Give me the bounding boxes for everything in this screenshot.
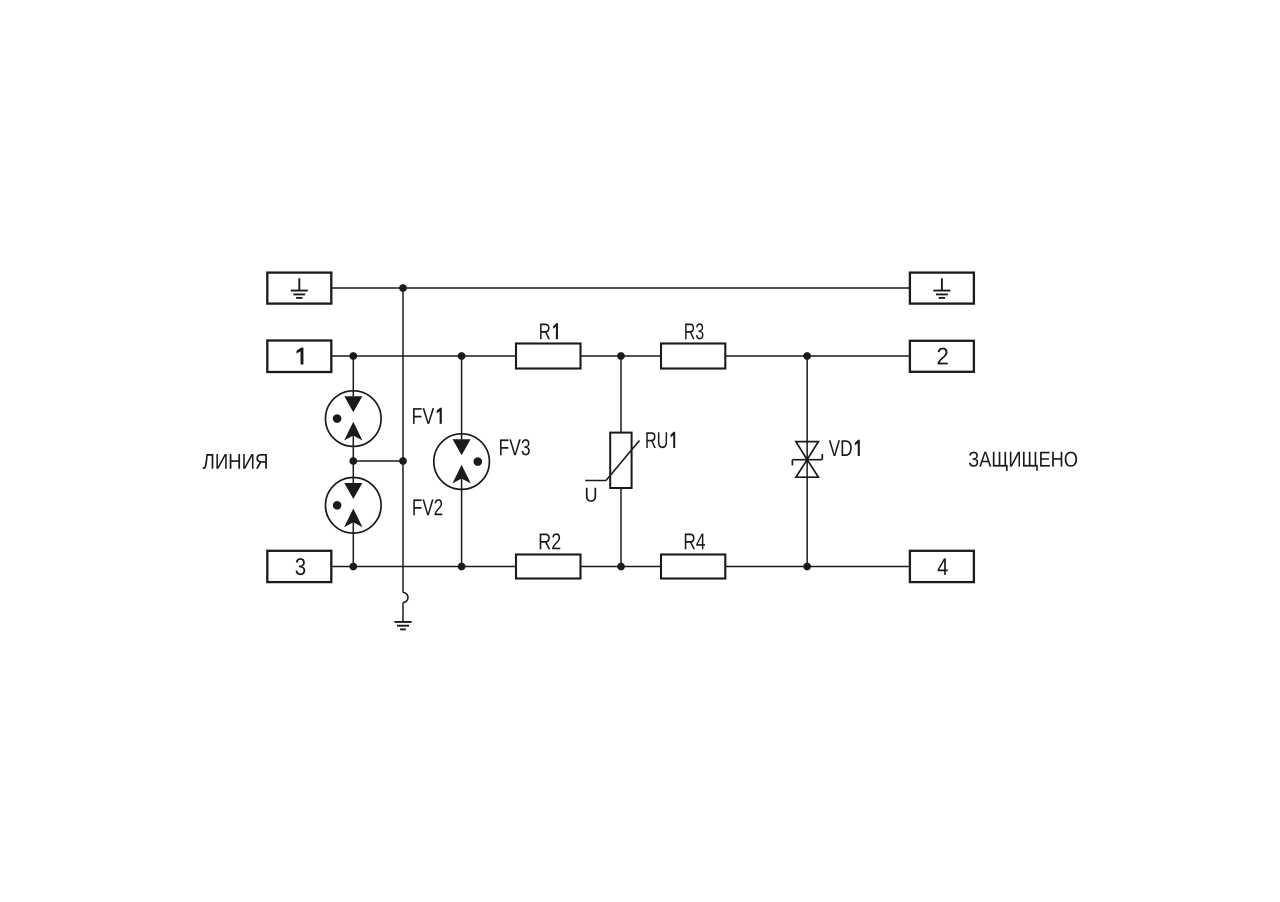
label VD1 xyxy=(829,440,860,456)
label R3 xyxy=(685,323,703,339)
label FV3 xyxy=(500,439,530,455)
node: top line / VD1 branch xyxy=(803,352,811,360)
node: midpoint link / ground conductor xyxy=(399,457,407,465)
resistor R3 xyxy=(661,344,725,369)
gas discharge tube FV3 xyxy=(434,434,490,490)
label R1 xyxy=(540,323,558,339)
label terminal 1 xyxy=(297,348,304,365)
node: bottom line / RU1 branch xyxy=(617,563,625,571)
ground symbol inside left earth terminal xyxy=(291,278,308,298)
label FV2 xyxy=(413,499,442,515)
wire: earth bus (top horizontal) xyxy=(331,287,910,289)
wire: FV1/FV2 midpoint to ground conductor xyxy=(353,460,403,462)
wire: top line to RU1 xyxy=(620,356,622,433)
wire: vertical ground conductor xyxy=(403,288,408,622)
node: bottom line / FV3 branch xyxy=(458,563,466,571)
wire: R4 to terminal 4 xyxy=(725,566,910,568)
wire: top line to FV1 xyxy=(352,356,354,391)
terminal box 4 xyxy=(910,551,974,582)
resistor R2 xyxy=(516,555,581,579)
varistor RU1 xyxy=(585,433,639,488)
wire: top line (terminal 1 to R1) xyxy=(331,355,516,357)
wire: R3 to terminal 2 xyxy=(725,355,910,357)
label terminal 4 xyxy=(938,558,948,575)
wire: FV1 to FV2 xyxy=(352,446,354,477)
gas discharge tube FV2 xyxy=(326,478,382,534)
terminal box: earth right xyxy=(910,273,974,304)
terminal box 3 xyxy=(267,551,331,582)
node: top line / RU1 branch xyxy=(617,352,625,360)
node: earth bus / ground conductor junction xyxy=(399,284,407,292)
label terminal 3 xyxy=(296,558,306,575)
ground symbol inside right earth terminal xyxy=(933,278,950,298)
terminal box: earth left xyxy=(267,273,331,304)
wire: FV3 to bottom line xyxy=(461,489,463,566)
wire: R1 to R3 xyxy=(581,355,662,357)
node: top line / FV1 branch xyxy=(349,352,357,360)
terminal box 1 xyxy=(267,341,331,373)
label U xyxy=(586,488,596,502)
node: bottom line / FV2 branch xyxy=(349,563,357,571)
terminal box 2 xyxy=(910,341,974,372)
ground symbol at bottom of ground conductor xyxy=(394,622,411,630)
label R2 xyxy=(540,533,561,549)
label ЗАЩИЩЕНО xyxy=(969,452,1077,471)
label R4 xyxy=(685,534,705,550)
resistor R4 xyxy=(661,555,725,579)
node: bottom line / VD1 branch xyxy=(803,563,811,571)
label RU1 xyxy=(646,432,675,448)
wire: R2 to R4 xyxy=(581,566,662,568)
suppressor diode VD1 xyxy=(792,442,822,478)
wire: top line to VD1 xyxy=(806,356,808,460)
wire: top line to FV3 xyxy=(461,356,463,434)
resistor R1 xyxy=(516,344,581,369)
label terminal 2 xyxy=(938,348,948,365)
wire: VD1 to bottom line xyxy=(806,460,808,567)
node: top line / FV3 branch xyxy=(458,352,466,360)
wire: bottom line (terminal 3 to R2) xyxy=(331,566,516,568)
label FV1 xyxy=(413,408,442,424)
node: FV1-FV2 midpoint xyxy=(349,457,357,465)
label ЛИНИЯ xyxy=(203,454,267,469)
wire: FV2 to bottom line xyxy=(352,533,354,566)
gas discharge tube FV1 xyxy=(326,391,382,447)
wire: RU1 to bottom line xyxy=(620,488,622,567)
